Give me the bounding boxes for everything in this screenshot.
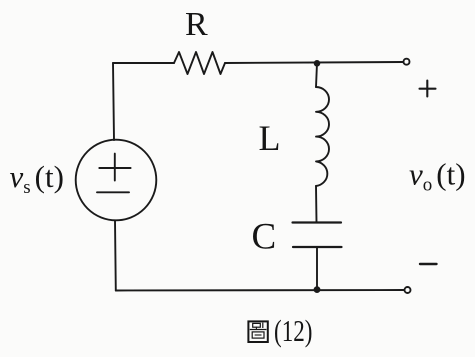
capacitor C top plate — [293, 221, 342, 223]
svg-text:νs(t): νs(t) — [10, 159, 64, 198]
node junction dot top — [314, 60, 321, 67]
voltage source minus sign — [97, 191, 129, 193]
terminal top-right open circle — [404, 59, 410, 65]
voltage source vs circle — [76, 140, 157, 221]
caption CJK character tu (figure) drawn as strokes — [248, 321, 267, 342]
label minus output polarity — [420, 263, 437, 265]
label plus output polarity — [420, 81, 436, 97]
wire inductor top stub — [316, 63, 317, 87]
svg-text:C: C — [252, 217, 277, 258]
capacitor C bottom plate — [293, 246, 342, 248]
inductor L coil — [316, 87, 329, 186]
voltage source plus sign — [99, 154, 130, 181]
wire bottom-left vertical — [114, 221, 117, 291]
wire inductor-capacitor stub — [315, 186, 318, 223]
wire top-left segment — [113, 62, 174, 64]
wire left vertical — [113, 63, 114, 140]
terminal bottom-right open circle — [405, 287, 411, 293]
node junction dot bottom — [314, 286, 321, 293]
wire bottom horizontal — [116, 289, 405, 292]
svg-text:L: L — [259, 118, 281, 158]
svg-text:νo(t): νo(t) — [409, 157, 466, 196]
wire top-right segment — [225, 62, 403, 63]
svg-text:R: R — [185, 6, 208, 43]
svg-text:(12): (12) — [274, 313, 313, 348]
resistor R — [174, 52, 225, 74]
wire capacitor bottom stub — [316, 247, 318, 290]
